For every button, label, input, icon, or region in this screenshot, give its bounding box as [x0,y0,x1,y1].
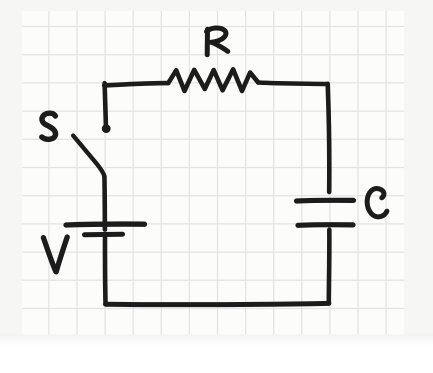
wire right vertical lower [326,230,331,304]
switch S blade [73,136,104,177]
wire top-left vertical [105,83,106,126]
wire bottom horizontal [106,303,329,304]
wire bottom-left vertical [103,237,108,305]
resistor R1 [168,69,258,91]
battery V long plate [66,221,145,227]
label R [207,28,228,55]
wire right vertical upper [328,84,330,192]
label S [42,113,56,139]
capacitor C bottom plate [298,222,353,228]
grid lines [22,11,404,335]
ink [42,28,387,305]
label C [367,188,387,216]
capacitor C top plate [297,198,354,204]
battery V short plate [85,232,123,238]
wire top horizontal right [258,83,327,85]
wire top horizontal left [104,83,168,85]
label V [43,237,67,272]
graph paper [22,11,404,335]
fade under grid [0,334,433,346]
node switch-top dot [102,124,111,133]
wire switch to battery [102,177,107,230]
